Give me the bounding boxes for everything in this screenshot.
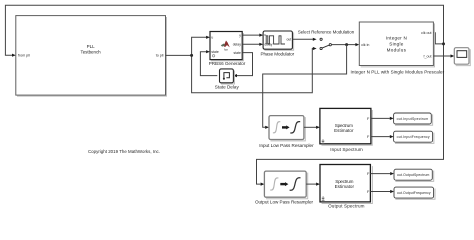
junction clk in tap — [345, 43, 348, 46]
outport out.InputSpectrum — [394, 113, 433, 125]
svg-text:Testbench: Testbench — [81, 50, 102, 55]
svg-text:Estimator: Estimator — [335, 184, 355, 189]
svg-text:Input Low Pass Resampler: Input Low Pass Resampler — [259, 143, 314, 148]
svg-text:Phase Modulator: Phase Modulator — [260, 51, 294, 56]
wire State Delay to PRBS6 state — [200, 52, 217, 76]
svg-text:f_out: f_out — [423, 55, 431, 59]
svg-text:fcn: fcn — [224, 48, 228, 52]
block Output Low Pass Resampler — [264, 171, 307, 199]
svg-text:Output Spectrum: Output Spectrum — [328, 203, 365, 208]
svg-text:Estimator: Estimator — [334, 128, 354, 133]
svg-text:delay: delay — [264, 42, 272, 46]
outport out.InputFrequency — [394, 131, 434, 143]
svg-text:clk in: clk in — [361, 43, 369, 47]
svg-text:delay: delay — [233, 43, 241, 47]
block Input Low Pass Resampler — [269, 116, 305, 141]
svg-text:out: out — [286, 37, 291, 41]
svg-text:PRBS6 Generator: PRBS6 Generator — [209, 61, 246, 66]
svg-text:out.InputFrequency: out.InputFrequency — [397, 135, 430, 139]
svg-text:clk out: clk out — [421, 31, 431, 35]
wire PRBS6 state to State Delay — [237, 53, 253, 76]
arrow into switch lower input — [313, 47, 317, 50]
outport out.OutputFrequency — [394, 187, 435, 199]
svg-text:y: y — [239, 33, 241, 37]
wire output resampler to output spectrum estimator — [306, 183, 316, 185]
svg-text:state: state — [211, 50, 218, 54]
block State Delay — [220, 69, 235, 84]
svg-text:PLL: PLL — [87, 44, 96, 49]
svg-text:u: u — [264, 33, 266, 37]
svg-text:Output Low Pass Resampler: Output Low Pass Resampler — [255, 199, 314, 204]
wire tap down to Input Low Pass Resampler — [263, 45, 347, 128]
block Scope — [454, 48, 470, 66]
wire F to out.OutputFrequency — [370, 191, 390, 193]
svg-text:out.OutputSpectrum: out.OutputSpectrum — [397, 173, 429, 177]
wire feedback clk out to from pll and output tap — [5, 5, 443, 184]
wire F to out.InputFrequency — [371, 136, 390, 138]
arrow into from pll — [12, 54, 16, 57]
block Integer N Single Modulus — [359, 22, 434, 67]
block PLL Testbench — [16, 16, 167, 97]
wire PRBS6 y to Phase Modulator u — [242, 34, 259, 36]
block Phase Modulator — [263, 31, 294, 50]
svg-text:Modulus: Modulus — [387, 47, 407, 52]
svg-text:Copyright 2019 The MathWorks,: Copyright 2019 The MathWorks, Inc. — [88, 149, 160, 154]
junction clk out feedback — [442, 42, 445, 45]
svg-text:Select Reference Modulation: Select Reference Modulation — [298, 29, 355, 34]
svg-text:Integer N: Integer N — [386, 36, 407, 41]
arrow into Output Low Pass Resampler — [261, 183, 265, 186]
wire f_out to scope — [433, 55, 450, 57]
wire F to out.InputSpectrum — [371, 117, 390, 119]
block Spectrum Estimator (input) — [320, 108, 372, 145]
svg-text:Integer N PLL with Single Modu: Integer N PLL with Single Modulus Presca… — [351, 69, 445, 74]
junction to pll — [190, 54, 193, 57]
matlab fcn logo — [224, 41, 230, 48]
wire to pll out with branches — [166, 37, 313, 92]
block PRBS6 Generator — [210, 32, 243, 61]
wire resampler to input spectrum estimator — [304, 126, 316, 128]
svg-text:State Delay: State Delay — [215, 85, 240, 90]
wire F to out.OutputSpectrum — [370, 173, 390, 175]
svg-text:out.InputSpectrum: out.InputSpectrum — [397, 117, 429, 121]
arrow into PRBS6 u — [206, 36, 210, 39]
svg-text:out.OutputFrequency: out.OutputFrequency — [397, 191, 431, 195]
svg-text:from pll: from pll — [18, 54, 30, 58]
outport out.OutputSpectrum — [394, 169, 434, 181]
manual switch — [320, 38, 331, 49]
wire Phase Modulator out to switch upper input — [292, 38, 313, 40]
wire PRBS6 delay to Phase Modulator delay — [242, 43, 259, 45]
svg-text:u: u — [211, 36, 213, 40]
svg-text:to pll: to pll — [156, 54, 164, 58]
svg-text:state: state — [234, 51, 241, 55]
svg-text:Input Spectrum: Input Spectrum — [330, 147, 363, 152]
svg-text:Single: Single — [389, 42, 403, 47]
block Spectrum Estimator (output) — [320, 165, 372, 204]
wire switch out to clk in — [331, 44, 355, 46]
